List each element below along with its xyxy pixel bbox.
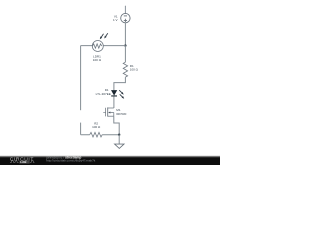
svg-text:LAB: LAB: [20, 160, 27, 164]
resistor R2: [90, 132, 103, 137]
wire: [124, 23, 126, 46]
wire: [80, 123, 82, 135]
LED D1: [111, 90, 117, 96]
wire: [80, 46, 82, 111]
photoresistor LDR1: [92, 41, 103, 52]
svg-text:100 Ω: 100 Ω: [92, 125, 101, 129]
wire: [113, 96, 115, 108]
svg-text:IRF530: IRF530: [116, 112, 126, 116]
wire: [124, 6, 126, 13]
node junction: [118, 134, 120, 136]
node junction: [124, 44, 126, 46]
voltage source V1: [121, 13, 130, 22]
wire: [124, 46, 126, 63]
transistor M1: [103, 107, 114, 116]
LED light arrows: [119, 90, 124, 99]
wire: [81, 134, 120, 136]
wire: [81, 45, 126, 47]
ground: [115, 144, 124, 148]
wire: [118, 135, 120, 144]
svg-text:1 V: 1 V: [113, 18, 119, 22]
wire: [114, 116, 119, 135]
svg-text:100 Ω: 100 Ω: [130, 67, 139, 71]
wire: [114, 77, 126, 90]
footer bar: [0, 155, 220, 157]
resistor R1: [123, 62, 127, 77]
svg-text:http://circuitlab.com/c/8yyq47: http://circuitlab.com/c/8yyq47xnab7k: [46, 159, 96, 163]
svg-text:100 Ω: 100 Ω: [93, 58, 102, 62]
LDR light arrows: [100, 33, 108, 39]
svg-text:LTL-307EE: LTL-307EE: [96, 92, 111, 96]
